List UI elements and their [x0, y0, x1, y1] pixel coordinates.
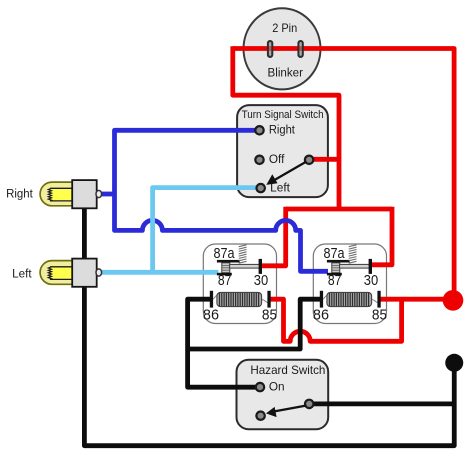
svg-text:87: 87 — [218, 273, 232, 289]
wire red: blinker pin 1 down to turn-signal feed rail — [233, 46, 339, 209]
svg-text:Blinker: Blinker — [268, 66, 304, 80]
svg-text:Off: Off — [269, 154, 285, 166]
lamp Left (indicator bulb) — [40, 259, 102, 287]
svg-text:30: 30 — [254, 273, 268, 289]
junction +12V (red dot) — [443, 290, 464, 311]
S2 contact On — [256, 383, 264, 391]
blinker pin underlays — [267, 40, 273, 58]
S1 switch arm arrow — [266, 162, 306, 185]
hazard switch S2 body — [237, 360, 329, 429]
blinker pin 2 — [298, 41, 302, 57]
K1 armature — [222, 263, 260, 273]
wire blue: switch Right contact to left riser, lamp bus, to relay K2 terminal 87 — [115, 130, 329, 271]
S1 contact Off — [255, 156, 263, 164]
K2 terminal 87 — [327, 273, 342, 276]
wire red: bus to relay K1 terminal 30 — [262, 207, 286, 266]
K2 armature — [332, 263, 370, 273]
blinker pin 1 — [268, 41, 272, 57]
K1 terminal 87 — [217, 273, 232, 276]
svg-text:Right: Right — [269, 125, 296, 137]
turn signal switch S1 body — [237, 105, 328, 197]
wire blue: right lamp tap — [102, 192, 115, 197]
wire red: distribution bus to relays — [286, 207, 392, 212]
blinker B1 body — [244, 8, 321, 89]
K2 terminal 30 — [369, 259, 372, 274]
wire red: relay K1 terminal 85 to +12V junction (hop over black) — [270, 299, 402, 341]
S1 contact Right — [255, 126, 263, 134]
wire lightblue: switch Left contact to riser — [153, 188, 261, 273]
K1 spring — [239, 245, 247, 263]
S2 contact common — [305, 400, 313, 408]
svg-text:87: 87 — [328, 273, 342, 289]
wire red: blinker pins across to right rail — [233, 49, 454, 301]
wire red: bus to relay K2 terminal 30 — [372, 207, 392, 265]
svg-text:Left: Left — [12, 268, 32, 280]
K2 spring — [349, 245, 357, 263]
K1 coil — [217, 292, 262, 306]
relay K2 body — [313, 244, 386, 324]
K2 coil leads — [322, 296, 378, 303]
svg-text:85: 85 — [372, 307, 387, 323]
svg-text:86: 86 — [313, 307, 329, 323]
svg-text:Turn Signal Switch: Turn Signal Switch — [242, 109, 324, 121]
K2 terminal 85 — [377, 291, 380, 308]
S1 contact common — [305, 156, 313, 164]
svg-text:Right: Right — [6, 189, 33, 201]
wire red: feed to turn signal switch common — [311, 157, 339, 162]
svg-text:Hazard Switch: Hazard Switch — [250, 364, 325, 377]
wire black: relay K1 terminal 86 down to hazard switch On — [188, 299, 258, 387]
junction ground (black dot) — [445, 354, 463, 372]
K2 coil — [327, 292, 372, 306]
wire black: relay K2 terminal 86 down joining K1 ground branch — [188, 299, 321, 349]
wire black: lamp ground rail down, along bottom, up to ground junction — [84, 200, 454, 446]
K1 coil leads — [212, 296, 268, 303]
svg-text:86: 86 — [203, 307, 219, 323]
K1 terminal 86 — [210, 291, 213, 308]
svg-text:87a: 87a — [324, 246, 346, 262]
K1 terminal 30 — [259, 259, 262, 274]
S2 contact Off (unlabelled) — [256, 412, 264, 420]
svg-text:On: On — [269, 381, 285, 393]
relay K1 body — [203, 244, 276, 324]
wire red: relay K2 terminal 85 to +12V junction — [380, 297, 453, 302]
K2 terminal 86 — [320, 291, 323, 308]
wire lightblue: left lamp to relay K1 terminal 87 — [102, 270, 219, 275]
relay K2 terminal 87a — [327, 260, 350, 266]
S1 contact Left — [257, 184, 265, 192]
svg-text:2 Pin: 2 Pin — [272, 21, 297, 35]
svg-text:85: 85 — [262, 307, 277, 323]
K1 terminal 85 — [267, 291, 270, 308]
relay K1 terminal 87a — [217, 260, 240, 266]
S2 switch arm arrow — [266, 406, 307, 418]
svg-text:87a: 87a — [214, 246, 236, 262]
lamp Right (indicator bulb) — [40, 180, 102, 208]
wire black: hazard switch common to ground junction — [309, 401, 454, 406]
svg-text:Left: Left — [270, 182, 291, 194]
svg-text:30: 30 — [364, 273, 378, 289]
